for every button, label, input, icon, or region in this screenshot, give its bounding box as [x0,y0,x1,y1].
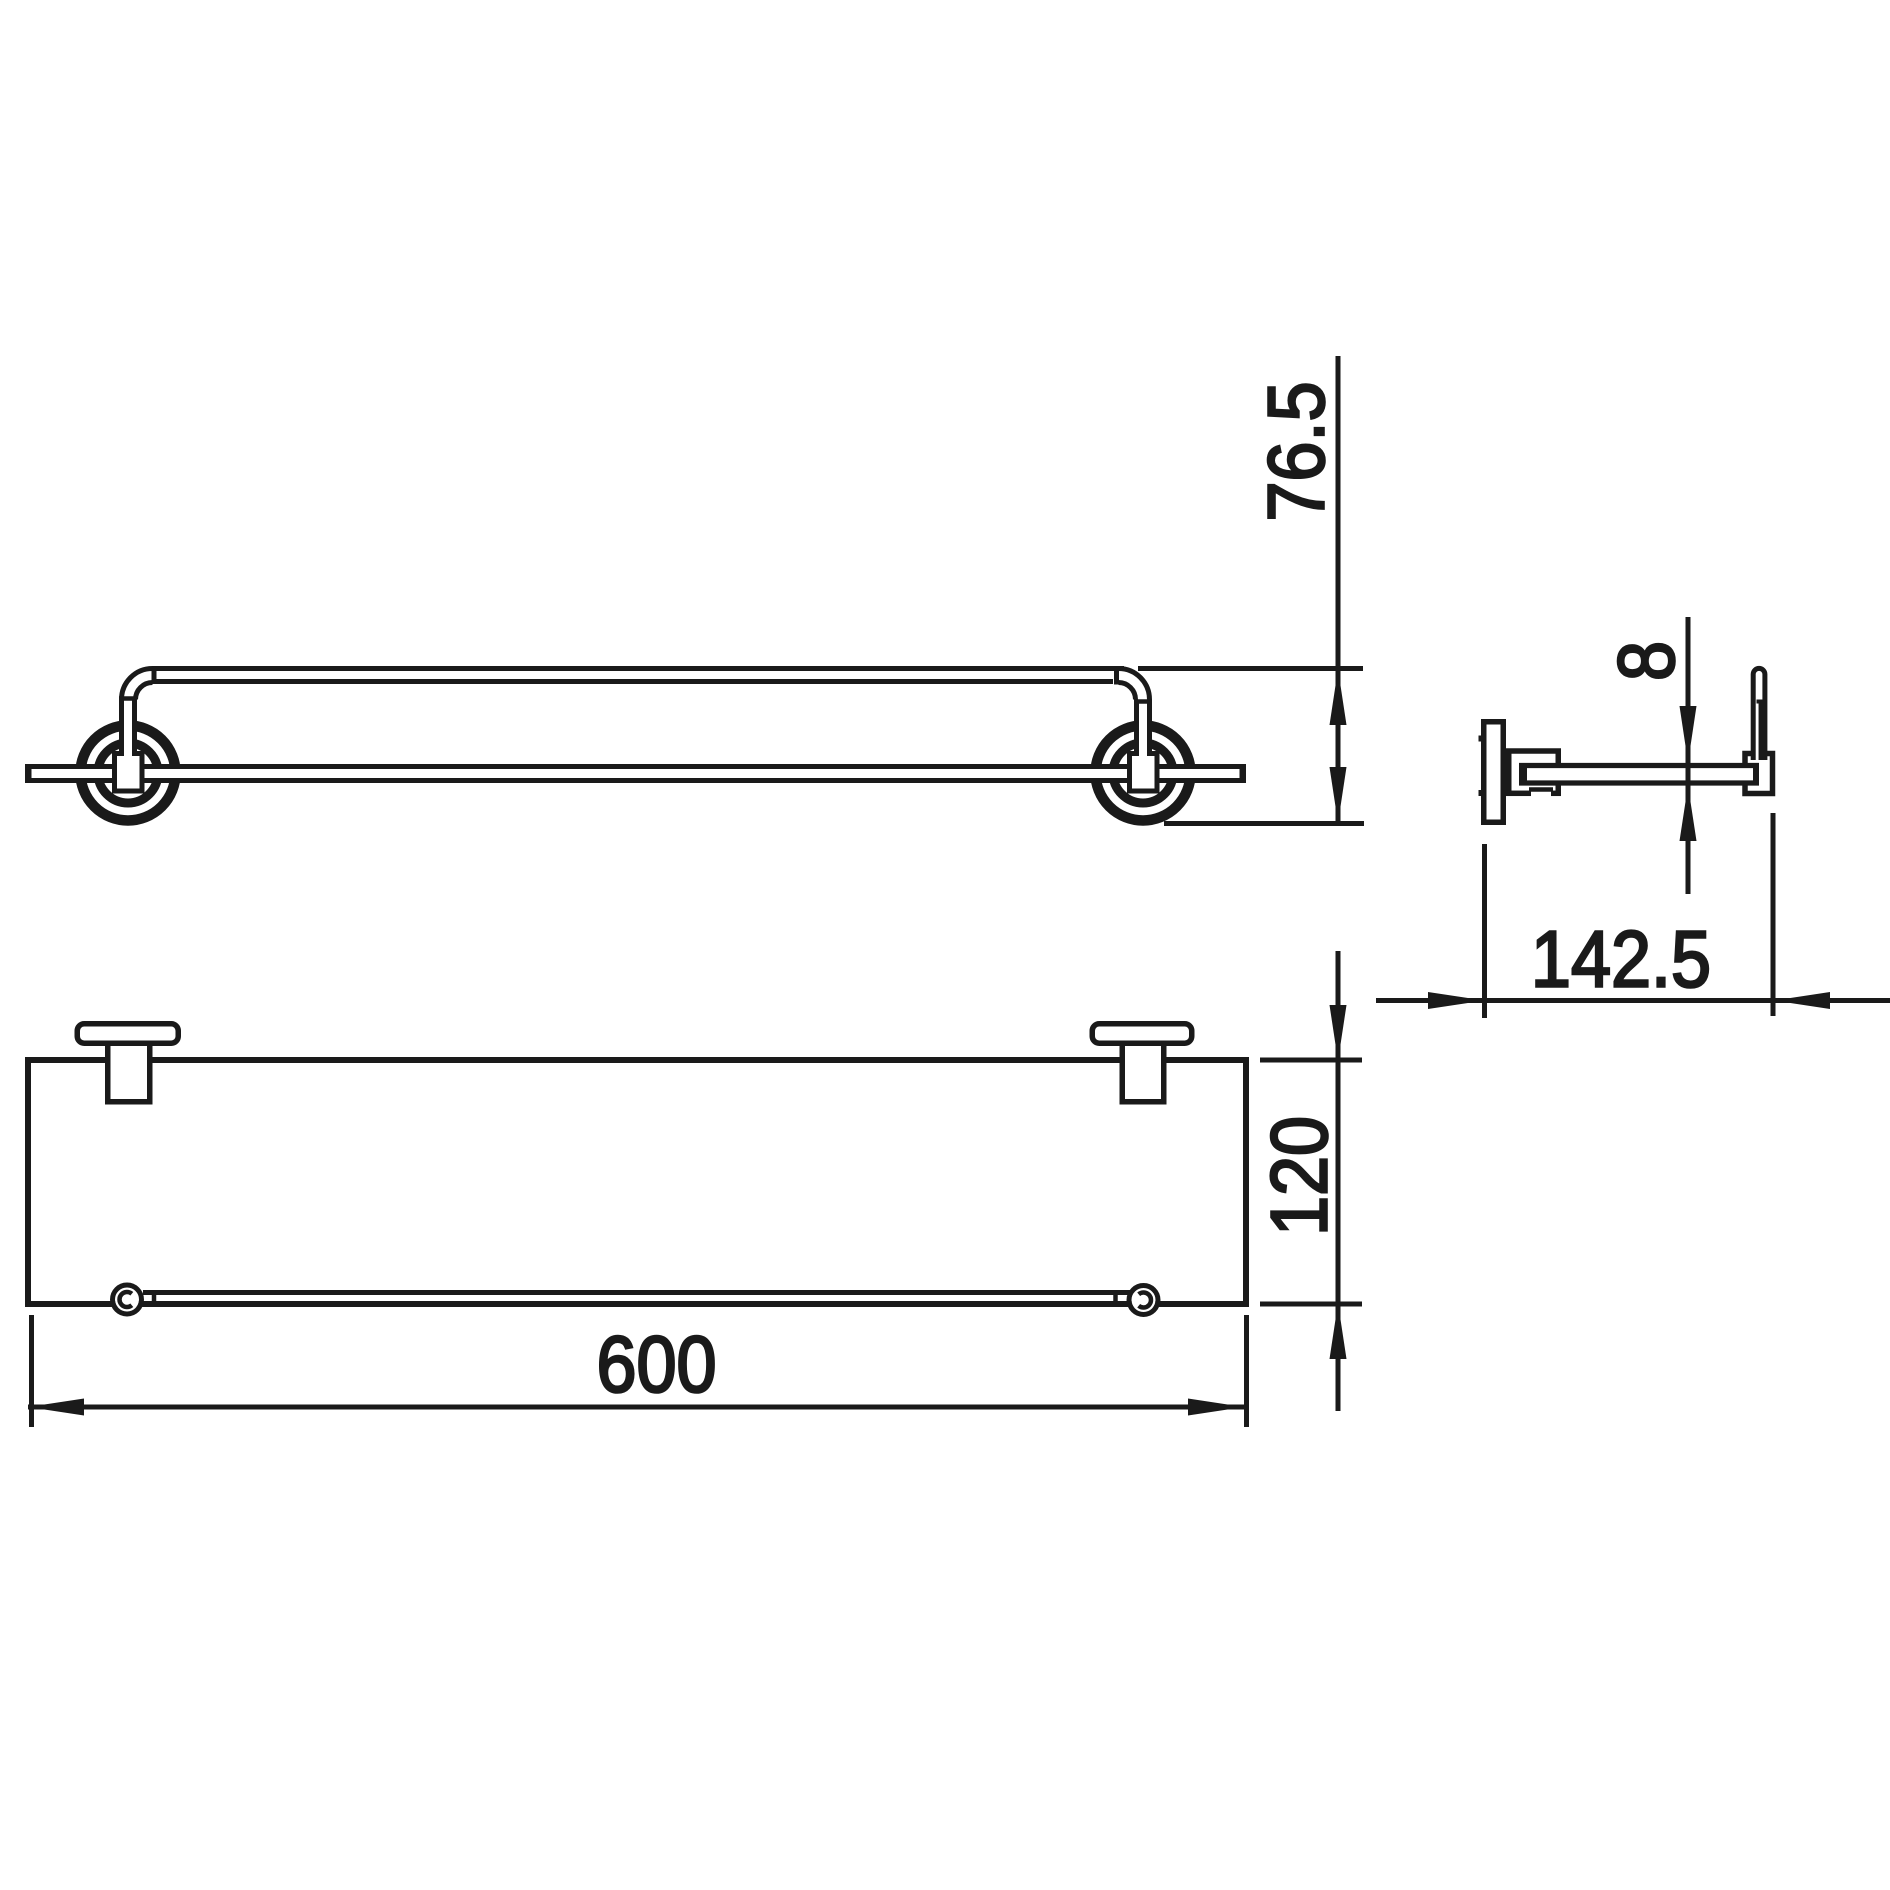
dimension line 600 [28,1405,1244,1410]
arrowhead up (8) [1680,786,1697,842]
right bracket body (plan view) [1122,1043,1164,1102]
arrowhead up (120) [1330,1303,1347,1359]
left bracket body (plan view) [108,1043,150,1102]
rail joint ticks (plan view) [154,1290,1116,1305]
arrowhead left (600) [28,1399,84,1416]
left bend joint ticks (front view) [119,667,154,699]
arrowhead down (76.5) [1330,767,1347,823]
right rail end ring (plan view) [1129,1286,1158,1315]
arrowhead right (600) [1188,1399,1244,1416]
guard rail bar (plan view) [143,1293,1130,1302]
dimension line 8 [1686,617,1691,894]
right rail tube vertical (front view) [1137,697,1150,758]
rail tube (side view) [1753,668,1765,760]
mount holder (side view) [1509,751,1559,793]
extension line left (600) [29,1315,34,1427]
glass shelf bar (front view) [25,764,1246,783]
left bracket flange (plan view) [77,1024,178,1044]
right rail bend (front view) [1119,669,1150,700]
wall plate (side view) [1484,722,1504,823]
dimension line 142.5 [1376,998,1890,1003]
extension line bottom (76.5) [1164,821,1364,826]
glass shelf (side view) [1519,763,1760,786]
wall plate ticks (side view) [1479,736,1485,797]
arrowhead up (76.5) [1330,669,1347,725]
arrowhead down (8) [1680,706,1697,763]
extension line bottom (120) [1260,1302,1362,1307]
svg-text:8: 8 [1602,641,1691,681]
dimension line 76.5 [1336,356,1341,824]
holder set-screw notch (side view) [1529,790,1553,798]
right bracket flange (plan view) [1092,1024,1192,1044]
left mount flange rings (front view) [81,726,176,821]
rail holder block (side view) [1745,754,1773,794]
extension line top (76.5) [1138,666,1363,671]
svg-text:600: 600 [596,1320,716,1409]
glass shelf outline (plan view) [28,1060,1246,1304]
arrowhead down (120) [1330,1005,1347,1061]
arrowhead right-pointing (142.5) [1428,992,1485,1009]
right mount flange rings (front view) [1096,726,1191,821]
left rail end ring (plan view) [113,1285,142,1314]
arrowhead left-pointing (142.5) [1774,992,1830,1009]
extension line right (142.5) [1771,813,1776,1016]
extension line left (142.5) [1482,844,1487,1018]
svg-text:120: 120 [1255,1116,1344,1236]
rail top bar (front view) [153,669,1125,682]
svg-text:142.5: 142.5 [1531,915,1711,1004]
dimension line 120 [1336,951,1341,1411]
extension line top (120) [1260,1058,1362,1063]
svg-text:76.5: 76.5 [1252,381,1341,521]
left rail bend (front view) [122,669,153,700]
left mount post (front view) [115,754,143,792]
extension line right (600) [1244,1315,1249,1427]
right mount post (front view) [1130,754,1158,792]
right bend joint ticks (front view) [1117,669,1149,702]
left rail tube vertical (front view) [122,697,135,758]
